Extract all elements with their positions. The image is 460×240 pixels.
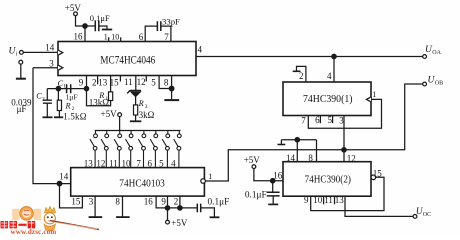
svg-text:9: 9 bbox=[304, 195, 309, 205]
svg-text:13: 13 bbox=[84, 158, 94, 168]
wire hook to ground bbox=[280, 140, 282, 144]
wire U1 pin13 stub / R1 top lead bbox=[110, 76, 112, 92]
svg-text:2: 2 bbox=[174, 197, 179, 207]
svg-text:OC: OC bbox=[423, 212, 431, 218]
wire U4 pin13 to UOC bbox=[345, 196, 413, 216]
wire U1 pin8 stub bbox=[171, 76, 173, 89]
svg-text:12: 12 bbox=[347, 153, 356, 163]
svg-text:8: 8 bbox=[164, 78, 169, 88]
junction pin16 node bbox=[83, 24, 87, 28]
watermark red text wei-ku-yi-xia bbox=[1, 221, 36, 228]
node Ui input terminal bbox=[20, 51, 24, 55]
pin 15 bubble U4 bbox=[371, 175, 376, 180]
svg-text:74HC390(2): 74HC390(2) bbox=[305, 173, 352, 185]
wire C6 to ground bbox=[201, 208, 215, 217]
svg-text:16: 16 bbox=[144, 197, 154, 207]
wire C1 horizontal bbox=[58, 88, 86, 90]
svg-text:2: 2 bbox=[299, 71, 304, 81]
svg-text:14: 14 bbox=[286, 153, 296, 163]
wire C4 to ground bbox=[99, 26, 107, 29]
capacitor C4 0.1uF plates bbox=[95, 21, 99, 32]
svg-text:+5V: +5V bbox=[171, 218, 188, 228]
svg-text:1.5kΩ: 1.5kΩ bbox=[63, 112, 87, 122]
switch S2 bbox=[106, 131, 108, 134]
wire junction to C7 bbox=[272, 181, 274, 192]
svg-text:9: 9 bbox=[161, 197, 166, 207]
wire U1 pin11 stub bbox=[135, 76, 137, 91]
svg-text:OA: OA bbox=[432, 50, 441, 56]
wire U1 pin15 stub bbox=[119, 76, 121, 82]
capacitor C7 0.1uF plates bbox=[267, 192, 280, 196]
svg-text:0.1μF: 0.1μF bbox=[245, 190, 267, 200]
svg-text:1: 1 bbox=[372, 90, 376, 99]
switch S1 bbox=[95, 131, 97, 134]
wire U1 pin4 output to UOA bbox=[196, 56, 423, 58]
ground (top 0.1uF) bbox=[102, 29, 112, 31]
wire U4 pin16 to +5V bbox=[254, 169, 283, 181]
svg-text:8: 8 bbox=[115, 197, 120, 207]
ground (R2) bbox=[54, 116, 63, 118]
svg-text:8: 8 bbox=[308, 153, 313, 163]
svg-text:15: 15 bbox=[71, 197, 81, 207]
svg-text:13kΩ: 13kΩ bbox=[89, 97, 110, 107]
wire to ground bbox=[171, 89, 173, 100]
resistor R2 1.5k body bbox=[57, 100, 61, 110]
svg-text:1: 1 bbox=[208, 172, 212, 181]
svg-text:3: 3 bbox=[89, 197, 94, 207]
svg-text:6: 6 bbox=[315, 115, 320, 125]
resistor R1 13k body bbox=[109, 92, 113, 101]
wire R3 to ground bbox=[135, 115, 137, 121]
svg-text:R: R bbox=[138, 99, 144, 108]
pin 2 hook U3 to ground bbox=[297, 66, 306, 82]
svg-text:74HC390(1): 74HC390(1) bbox=[303, 93, 353, 105]
svg-text:+5V: +5V bbox=[244, 155, 261, 165]
svg-text:11: 11 bbox=[124, 77, 133, 87]
svg-text:7: 7 bbox=[301, 116, 306, 126]
ground (U4 pins 14,8) bbox=[278, 144, 286, 146]
ground (U3 pin2) bbox=[293, 70, 301, 72]
wire U2 pin3 to ground bbox=[94, 196, 96, 216]
wire U2 pin16 stub bbox=[156, 196, 197, 208]
ground (U2 pin8) bbox=[116, 216, 130, 218]
switch S7 bbox=[167, 131, 169, 134]
svg-text:4: 4 bbox=[198, 45, 203, 55]
svg-text:14: 14 bbox=[59, 172, 68, 182]
wire to U3 pin4 bbox=[333, 57, 335, 83]
svg-text:12: 12 bbox=[96, 158, 105, 168]
node input return terminal bbox=[19, 60, 23, 64]
wire +5V to switch bus bbox=[119, 117, 121, 131]
wire U4 pin14 stub bbox=[296, 140, 298, 162]
svg-text:7: 7 bbox=[136, 158, 141, 168]
svg-text:0.1μF: 0.1μF bbox=[90, 13, 110, 23]
svg-text:15: 15 bbox=[110, 78, 120, 88]
capacitor C2 0.039uF plates bbox=[43, 100, 52, 103]
wire U1 pin5 stub bbox=[159, 76, 172, 89]
svg-text:11: 11 bbox=[324, 195, 333, 205]
junction UOA / U3 pin4 bbox=[332, 54, 336, 58]
chip U4 74HC390(2) body bbox=[283, 162, 371, 197]
svg-text:1: 1 bbox=[104, 32, 108, 41]
ground (U1 pins 5,8) bbox=[164, 99, 179, 101]
junction pin9 node U2 bbox=[165, 206, 169, 210]
wire U3 pin1 to pin7 loop bbox=[308, 99, 381, 128]
pin 1 wedge U3 bbox=[366, 97, 371, 102]
wire U2 pin2 stub bbox=[179, 196, 181, 208]
svg-text:+5V: +5V bbox=[65, 3, 82, 13]
wire U1 pin9 stub bbox=[86, 76, 88, 89]
junction C2/R2 node bbox=[56, 86, 60, 90]
capacitor C1 1uF plates bbox=[67, 84, 71, 93]
svg-text:1μF: 1μF bbox=[66, 92, 78, 101]
watermark faint chars bbox=[12, 209, 19, 221]
pin 1 bubble U2 bbox=[201, 179, 206, 184]
wire R2 lead top bbox=[57, 89, 59, 101]
junction pin2 node U2 bbox=[178, 206, 182, 210]
wire pin7 stub U1 bbox=[161, 26, 171, 41]
node UOC terminal bbox=[413, 215, 417, 219]
ground (C2) bbox=[43, 116, 53, 118]
node +5V terminal (middle) bbox=[118, 113, 122, 117]
svg-text:4: 4 bbox=[327, 71, 332, 81]
switch S5 bbox=[143, 131, 145, 134]
watermark pen swoosh bbox=[50, 221, 99, 230]
junction pin14/pin15 node bbox=[57, 181, 62, 186]
pin 3 input wedge U1 bbox=[58, 65, 63, 70]
wire U3 pin3 down to U4 pin12 bbox=[343, 116, 345, 162]
wire D1 to R3 bbox=[135, 97, 137, 105]
svg-text:6: 6 bbox=[139, 32, 144, 42]
wire U2 pin8 to ground bbox=[122, 196, 124, 216]
switch S3 bbox=[119, 131, 121, 134]
wire Ui to pin14 bbox=[23, 51, 58, 53]
svg-text:16: 16 bbox=[74, 32, 84, 42]
svg-text:0.1μF: 0.1μF bbox=[208, 198, 230, 208]
wire U4 pin10 stub bbox=[323, 196, 325, 204]
wire U4 pin8 stub bbox=[281, 140, 316, 162]
svg-text:12: 12 bbox=[137, 77, 146, 87]
svg-text:6: 6 bbox=[148, 158, 153, 168]
svg-text:16: 16 bbox=[273, 170, 283, 180]
svg-text:R: R bbox=[65, 101, 71, 110]
wire U4 pin11 stub bbox=[334, 196, 336, 204]
svg-text:3: 3 bbox=[49, 59, 54, 69]
svg-text:10: 10 bbox=[111, 32, 119, 41]
svg-text:74HC40103: 74HC40103 bbox=[119, 179, 165, 190]
junction pin16/C7 node bbox=[271, 179, 275, 183]
watermark mascot chicken bbox=[45, 207, 56, 213]
junction pin3/UOB net bbox=[342, 148, 346, 152]
svg-text:14: 14 bbox=[45, 43, 55, 53]
wire U3 pin6 stub bbox=[319, 116, 321, 124]
svg-text:MC74HC4046: MC74HC4046 bbox=[100, 52, 155, 66]
ground (C6) bbox=[210, 216, 220, 218]
wire R2 to ground bbox=[58, 111, 60, 117]
wire U4 pin15 to pin9 loop bbox=[311, 177, 384, 210]
node +5V terminal (top) bbox=[74, 12, 78, 16]
op-amp U1 MC74HC4046 body bbox=[58, 42, 196, 76]
svg-text:7: 7 bbox=[164, 32, 169, 42]
svg-text:15: 15 bbox=[373, 168, 383, 178]
svg-text:3kΩ: 3kΩ bbox=[139, 110, 155, 120]
wire U2 pin9 stub bbox=[167, 196, 169, 208]
svg-text:1: 1 bbox=[63, 84, 66, 90]
svg-text:11: 11 bbox=[109, 158, 118, 168]
wire pin16 stub bbox=[84, 26, 86, 42]
wire switch bus bbox=[95, 130, 181, 132]
ground (U2 pin3) bbox=[89, 216, 103, 218]
svg-text:10: 10 bbox=[122, 158, 132, 168]
wire terminal to ground bbox=[20, 64, 22, 78]
svg-text:3: 3 bbox=[145, 104, 148, 110]
wire C2 to ground bbox=[46, 104, 48, 117]
svg-text:13: 13 bbox=[98, 78, 108, 88]
svg-text:www.dzsc.com: www.dzsc.com bbox=[11, 228, 57, 235]
wire pin1 stub U1 bbox=[108, 37, 110, 41]
wire U3 pin5 stub bbox=[332, 116, 334, 124]
svg-text:5: 5 bbox=[328, 115, 333, 125]
wire pin3 of U1 down to U2 pin14 bbox=[33, 68, 71, 184]
svg-text:9: 9 bbox=[79, 78, 84, 88]
wire pin10 stub U1 bbox=[120, 37, 122, 41]
node UOB terminal bbox=[423, 82, 427, 86]
svg-text:5: 5 bbox=[151, 78, 156, 88]
svg-text:3: 3 bbox=[339, 116, 344, 126]
diode D1 triangle bbox=[130, 92, 141, 98]
node +5V terminal (bottom) bbox=[166, 220, 170, 224]
wire to C2 bbox=[47, 89, 58, 100]
svg-text:μF: μF bbox=[17, 104, 27, 114]
diode D1 cathode bar bbox=[127, 91, 141, 94]
ground (C7) bbox=[268, 203, 278, 205]
node UOA terminal bbox=[423, 55, 427, 59]
capacitor C5 33pF plates bbox=[157, 21, 160, 31]
svg-text:4: 4 bbox=[171, 158, 176, 168]
wire to +5V terminal bbox=[167, 208, 169, 220]
wire junction to C4 bbox=[85, 25, 95, 27]
switch S4 bbox=[130, 131, 132, 134]
svg-text:+5V: +5V bbox=[101, 109, 118, 119]
wire U2 pin15 loop bbox=[60, 184, 83, 208]
junction pin9 node bbox=[84, 86, 88, 90]
svg-text:OB: OB bbox=[435, 80, 443, 86]
node +5V terminal (U4) bbox=[252, 165, 256, 169]
wire R1 bottom to pin9 junction bbox=[87, 89, 111, 106]
svg-text:33pF: 33pF bbox=[162, 16, 180, 26]
chip U3 74HC390(1) body bbox=[283, 82, 371, 116]
junction pin14 node U4 bbox=[295, 138, 299, 142]
ground (R3) bbox=[130, 120, 141, 122]
watermark mascot emblem bbox=[12, 207, 99, 231]
capacitor C6 0.1uF plates bbox=[197, 204, 200, 213]
svg-text:10: 10 bbox=[313, 195, 323, 205]
svg-text:i: i bbox=[16, 52, 18, 58]
wire +5V to C4 junction bbox=[76, 16, 83, 26]
junction pin5/pin8 node bbox=[169, 86, 174, 91]
wire U2 pin1 to UOB net bbox=[206, 84, 423, 181]
svg-text:5: 5 bbox=[159, 158, 164, 168]
resistor R3 3k body bbox=[134, 105, 138, 115]
wire U1 pin2 stub bbox=[97, 76, 99, 85]
wire pin6 stub U1 bbox=[145, 26, 157, 41]
svg-text:13: 13 bbox=[335, 195, 345, 205]
switch S8 bbox=[178, 131, 180, 134]
wire U1 pin12 stub bbox=[145, 76, 147, 82]
ground (input) bbox=[16, 78, 26, 80]
svg-text:2: 2 bbox=[42, 96, 45, 102]
switch S6 bbox=[155, 131, 157, 134]
wire C7 to ground bbox=[272, 196, 274, 203]
pin 14 input wedge U1 bbox=[58, 50, 63, 55]
svg-text:2: 2 bbox=[92, 78, 97, 88]
chip U2 74HC40103 body bbox=[71, 168, 205, 197]
